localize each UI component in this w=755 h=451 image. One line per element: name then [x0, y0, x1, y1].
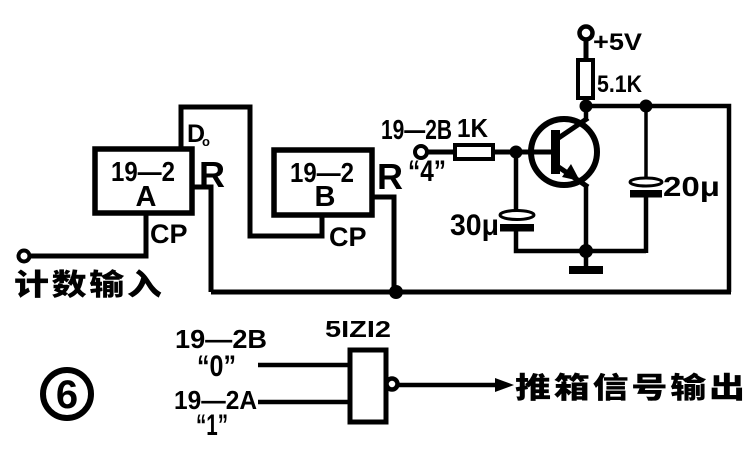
figure number 6 circled [43, 370, 91, 418]
svg-text:30μ: 30μ [450, 209, 499, 242]
svg-text:B: B [315, 181, 336, 213]
ground symbol [569, 266, 603, 274]
svg-text:1K: 1K [457, 113, 488, 143]
svg-text:“4”: “4” [408, 155, 446, 188]
wire gate input 1 [258, 363, 350, 368]
node junction base [510, 146, 523, 159]
terminal +5V circle [580, 27, 593, 40]
wire collector bus to right side [586, 106, 729, 292]
resistor 1K body [455, 145, 493, 159]
wire CP-of-A to input terminal [29, 213, 146, 256]
svg-text:19—2B: 19—2B [381, 114, 452, 145]
wire capacitor 30u to emitter bus [516, 231, 586, 251]
wire base node down to capacitor 30u [514, 152, 519, 212]
svg-text:CP: CP [150, 219, 188, 249]
wire capacitor 20u to emitter bus [644, 197, 649, 253]
wire R-of-A to bottom bus [192, 187, 211, 292]
svg-text:o: o [202, 134, 210, 149]
svg-text:6: 6 [56, 373, 78, 417]
wire +5V to resistor 5.1K [584, 39, 589, 60]
wire gate input 2 [258, 400, 350, 405]
svg-text:“0”: “0” [197, 350, 236, 383]
svg-text:5IZI2: 5IZI2 [325, 316, 391, 342]
gate U2 5IZI2 body [350, 350, 386, 422]
node junction collector [580, 100, 593, 113]
wire resistor 5.1K to collector node [584, 98, 589, 106]
svg-text:R: R [377, 156, 403, 197]
svg-text:20μ: 20μ [663, 171, 720, 202]
flip-flop U-A box 19-2 A [95, 149, 192, 213]
svg-text:CP: CP [329, 222, 367, 252]
node junction 20u tap [640, 100, 653, 113]
svg-text:“1”: “1” [196, 409, 228, 442]
svg-text:5.1K: 5.1K [597, 71, 643, 98]
wire emitter bus to 20u [586, 249, 646, 254]
gate output bubble [387, 379, 398, 390]
capacitor C2 20u [630, 178, 662, 198]
label 计数输入 [15, 269, 161, 298]
label 19-2B 1K [381, 113, 488, 145]
input terminal circle [19, 251, 30, 262]
node junction emitter bus [579, 244, 593, 258]
wire resistor to base node [493, 150, 552, 155]
wire D0-of-A to CP-of-B loop [181, 107, 322, 236]
capacitor C1 30u [500, 211, 534, 232]
resistor 5.1K body [578, 60, 593, 98]
wire node to capacitor 20u [644, 106, 648, 179]
wire terminal to resistor R-1K [427, 150, 455, 155]
svg-text:+5V: +5V [593, 29, 642, 56]
pin label D0 [187, 120, 210, 149]
transistor Q1 [531, 118, 597, 187]
node junction on bottom bus [389, 285, 403, 299]
svg-text:A: A [136, 181, 157, 213]
label 推箱信号输出 [516, 373, 742, 401]
wire gate output with arrow [398, 378, 514, 392]
wire R-of-B to bottom bus [372, 197, 394, 292]
wire bottom reset bus [211, 290, 731, 295]
wire emitter down to ground [584, 185, 589, 266]
flip-flop U-B box 19-2 B [274, 150, 372, 215]
terminal circle input 4 [415, 146, 427, 158]
wire collector to top node [584, 102, 589, 118]
